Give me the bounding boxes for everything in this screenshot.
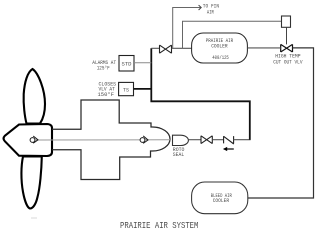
propeller upper blade: [24, 69, 45, 124]
roto seal: [173, 135, 189, 145]
valve (shaft line): [201, 136, 212, 144]
STD box: [119, 56, 134, 72]
svg-text:COOLER: COOLER: [211, 44, 228, 50]
actuator square: [282, 16, 291, 27]
actuator stem: [286, 27, 288, 44]
hub center arrow: [33, 136, 38, 143]
riser to actuator: [183, 21, 282, 48]
shaft housing outline: [52, 100, 170, 180]
STD line: [134, 62, 151, 64]
svg-text:125°F: 125°F: [97, 66, 110, 72]
pipe loop right-up-left: [151, 48, 250, 139]
propeller lower blade: [21, 157, 41, 209]
TS line: [134, 88, 152, 90]
riser to fin air: [173, 8, 201, 49]
pipe to STD valve: [151, 47, 160, 49]
shaft end arrow: [143, 136, 148, 144]
pipe cooler to valve: [247, 47, 280, 49]
svg-text:STD: STD: [122, 62, 132, 68]
TS box: [119, 82, 134, 95]
check valve: [224, 136, 234, 144]
svg-text:TS: TS: [123, 88, 129, 94]
svg-text:COOLER: COOLER: [213, 198, 229, 204]
scan artifact dots: [31, 217, 37, 219]
bleed air cooler: [192, 182, 248, 214]
svg-text:AIR: AIR: [207, 10, 214, 16]
svg-text:150°F: 150°F: [98, 92, 115, 98]
hub center circle: [30, 138, 35, 143]
svg-text:CUT OUT VLV: CUT OUT VLV: [273, 59, 302, 65]
pipe valve right and down to bleed cooler: [248, 48, 314, 198]
pipe valve to cooler: [172, 47, 192, 49]
flow arrow: [227, 148, 234, 150]
propeller hub: [4, 124, 52, 156]
svg-text:400/125: 400/125: [212, 55, 229, 61]
prairie air cooler: [192, 33, 248, 63]
shaft centerline: [35, 139, 170, 141]
pipe valve to check valve: [212, 139, 223, 141]
pipe roto seal to valve: [189, 139, 202, 141]
high temp cut out valve: [281, 44, 293, 52]
svg-text:SEAL: SEAL: [173, 152, 185, 158]
shaft end circle: [140, 138, 145, 143]
fin air arrowhead: [199, 5, 202, 10]
pipe check valve to riser: [234, 139, 251, 141]
valve (top left): [160, 45, 172, 53]
svg-text:PRAIRIE AIR SYSTEM: PRAIRIE AIR SYSTEM: [120, 221, 198, 231]
